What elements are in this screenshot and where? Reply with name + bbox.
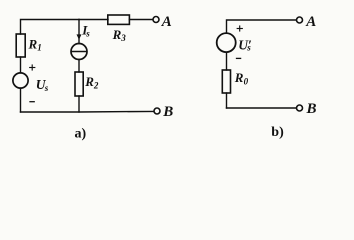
node label B, circuit b	[306, 101, 317, 117]
label U's	[238, 37, 252, 52]
terminal B (open circle), circuit b	[297, 105, 303, 111]
node label B, circuit a	[162, 104, 173, 120]
resistor R1 (vertical box, left branch of a)	[16, 34, 25, 57]
wire: bottom rail, circuit b (corner to terminal B)	[227, 107, 297, 109]
wire: U's to R0	[226, 52, 228, 70]
wire: R3 to terminal A, circuit a	[129, 19, 152, 21]
resistor R2 (vertical box, middle branch)	[75, 72, 83, 96]
terminal A (open circle), circuit b	[297, 17, 303, 23]
label R0	[234, 70, 249, 87]
svg-text:R: R	[28, 36, 38, 51]
label Us	[36, 77, 49, 93]
polarity - of U's	[237, 57, 241, 59]
polarity + of Us	[30, 65, 35, 70]
wire: R0 to bottom corner, circuit b	[226, 93, 228, 108]
svg-text:2: 2	[93, 81, 99, 91]
svg-text:R: R	[84, 74, 94, 89]
wire: top rail, circuit b (corner to terminal A)	[227, 20, 297, 33]
svg-text:B: B	[162, 104, 173, 120]
voltage source Us (circle)	[13, 73, 28, 88]
label R1	[28, 36, 42, 52]
svg-text:3: 3	[120, 33, 126, 43]
svg-text:B: B	[306, 101, 317, 117]
polarity + of U's	[237, 26, 242, 31]
svg-text:A: A	[305, 14, 316, 30]
current arrow of Is (pointing down)	[77, 34, 82, 39]
label R3	[112, 27, 127, 43]
current source Is (circle with horizontal bar)	[71, 44, 87, 60]
wire: Is branch lead from top rail	[78, 20, 80, 44]
label Is	[81, 22, 90, 38]
caption b)	[271, 125, 284, 140]
wire: top rail middle segment (Is junction to R3), circuit a	[79, 19, 108, 21]
wire: R1 to voltage source Us	[20, 57, 22, 73]
svg-text:1: 1	[37, 43, 42, 53]
wire: Us to bottom rail	[20, 88, 22, 112]
svg-text:0: 0	[244, 76, 249, 86]
terminal A (open circle), circuit a	[153, 17, 159, 23]
svg-text:a): a)	[75, 126, 87, 141]
label R2	[84, 74, 99, 90]
svg-text:s: s	[44, 83, 49, 93]
svg-text:s: s	[85, 29, 90, 39]
wire: bottom rail (left corner to terminal B), circuit a	[21, 110, 154, 113]
caption a)	[75, 126, 87, 141]
terminal B (open circle), circuit a	[154, 108, 160, 114]
svg-text:R: R	[234, 70, 244, 85]
wire: R2 to bottom rail (junction)	[78, 96, 80, 112]
svg-text:b): b)	[271, 125, 284, 140]
node label A, circuit a	[161, 14, 172, 30]
node label A, circuit b	[305, 14, 316, 30]
svg-text:A: A	[161, 14, 172, 30]
polarity - of Us	[30, 101, 34, 103]
resistor R3 (horizontal box on top rail)	[108, 15, 130, 24]
svg-text:R: R	[112, 27, 122, 42]
wire: top rail left segment (corner to Is junction), circuit a	[21, 20, 80, 35]
svg-text:s: s	[246, 43, 251, 53]
voltage source U's (circle)	[217, 33, 236, 52]
resistor R0 (vertical box, circuit b)	[222, 70, 230, 93]
wire: current source to R2	[78, 59, 80, 72]
